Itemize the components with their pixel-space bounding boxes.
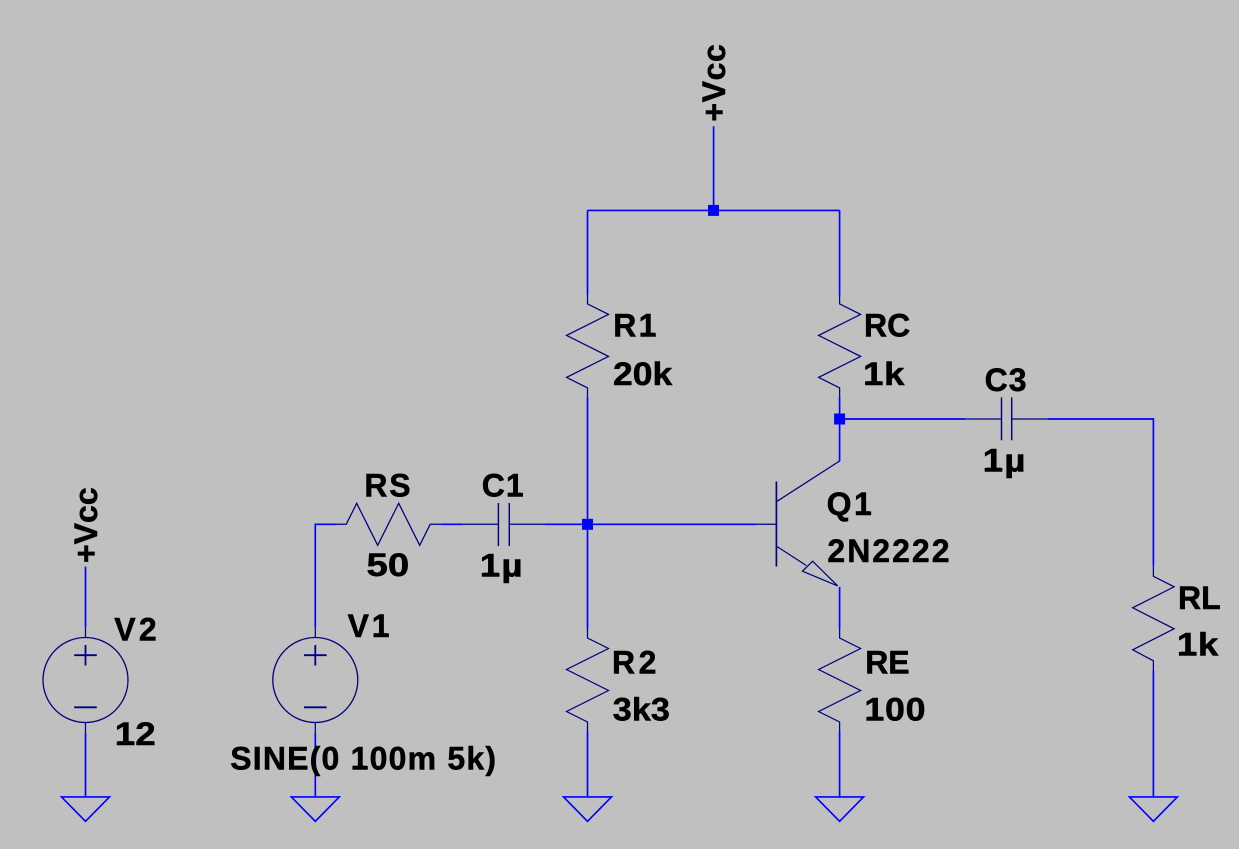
- wire top rail: [588, 209, 840, 211]
- resistor R1: [567, 295, 609, 397]
- digit-1 serif bar 12: [119, 741, 134, 745]
- svg-text:RC: RC: [864, 308, 910, 344]
- capacitor C1: [462, 503, 545, 546]
- svg-text:RS: RS: [364, 468, 412, 504]
- digit-1 serif bar R1: [641, 333, 655, 337]
- svg-text:C3: C3: [985, 362, 1028, 398]
- resistor R2: [567, 629, 609, 731]
- junction Vcc rail: [708, 205, 719, 216]
- digit-1 serif bar 1k RL: [1181, 652, 1196, 656]
- digit-1 serif bar 1u C3: [986, 468, 1001, 472]
- svg-text:C1: C1: [482, 468, 525, 504]
- wire emitter to RE: [839, 587, 841, 629]
- wire C1 to node A: [545, 523, 588, 525]
- ground R2: [564, 797, 612, 821]
- wire base: [588, 523, 757, 525]
- wire R1 top drop: [587, 210, 589, 295]
- digit-1 serif bar C1: [508, 493, 521, 497]
- ground RE: [816, 797, 864, 821]
- wire R1 bottom to node A: [587, 397, 589, 524]
- ground V1: [291, 797, 339, 821]
- capacitor C3: [965, 397, 1047, 440]
- wire V1 bottom: [314, 733, 316, 797]
- digit-1 serif bar 1k RC: [867, 381, 882, 385]
- ground V2: [62, 797, 110, 821]
- digit-1 serif bar SINE 1: [353, 766, 367, 770]
- junction collector node B: [834, 414, 845, 425]
- svg-text:2N2222: 2N2222: [827, 533, 951, 569]
- wire node B to collector: [839, 419, 841, 461]
- svg-text:RE: RE: [865, 645, 909, 681]
- svg-text:Q1: Q1: [827, 486, 875, 522]
- voltage source V1: [273, 627, 358, 733]
- wire RS to C1: [441, 523, 462, 525]
- resistor RS: [337, 503, 441, 545]
- svg-text:RL: RL: [1178, 580, 1221, 616]
- svg-text:V2: V2: [114, 612, 160, 648]
- wire RC top drop: [839, 210, 841, 295]
- digit-1 serif bar Q1: [856, 511, 870, 515]
- wire C3 to RL corner: [1047, 419, 1153, 565]
- transistor Q1: [756, 461, 840, 586]
- svg-text:50: 50: [367, 548, 410, 583]
- wire node B to C3: [840, 418, 966, 420]
- svg-text:100: 100: [864, 692, 926, 728]
- resistor RC: [819, 295, 861, 397]
- wire node A to R2: [587, 524, 589, 629]
- wire V2 top: [85, 567, 87, 627]
- svg-text:1µ: 1µ: [480, 549, 524, 584]
- svg-text:V1: V1: [348, 608, 393, 644]
- svg-text:1µ: 1µ: [983, 444, 1027, 479]
- svg-text:20k: 20k: [613, 357, 672, 393]
- resistor RE: [819, 629, 861, 731]
- svg-text:1k: 1k: [1177, 628, 1219, 663]
- svg-text:+Vcc: +Vcc: [68, 487, 104, 563]
- resistor RL: [1133, 565, 1174, 670]
- digit-1 serif bar V1: [374, 633, 388, 637]
- wire RL bottom: [1152, 670, 1154, 797]
- digit-1 serif bar 1u C1: [484, 573, 499, 577]
- svg-text:R2: R2: [612, 645, 660, 681]
- svg-text:+Vcc: +Vcc: [696, 44, 732, 122]
- svg-text:12: 12: [115, 717, 156, 752]
- wire Vcc stem: [713, 126, 715, 210]
- wire RS left corner to V1: [315, 524, 336, 627]
- wire RC bottom to node B: [839, 397, 841, 419]
- wire R2 bottom: [587, 731, 589, 797]
- voltage source V2: [43, 627, 128, 733]
- svg-text:3k3: 3k3: [613, 692, 670, 728]
- svg-text:1k: 1k: [863, 357, 905, 392]
- digit-1 serif bar 100: [868, 717, 882, 721]
- wire V2 bottom: [85, 733, 87, 797]
- ground RL: [1129, 797, 1177, 821]
- svg-text:R1: R1: [613, 308, 659, 344]
- wire RE bottom: [839, 731, 841, 797]
- junction base node A: [582, 519, 593, 530]
- svg-text:SINE(0 100m 5k): SINE(0 100m 5k): [230, 741, 497, 777]
